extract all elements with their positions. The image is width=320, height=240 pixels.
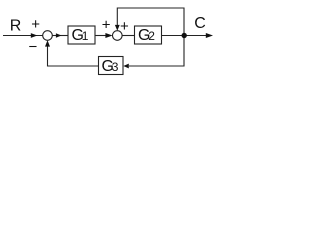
block G1 box (68, 26, 95, 44)
svg-text:G1: G1 (72, 27, 89, 44)
wire R input (3, 35, 43, 37)
svg-text:+: + (102, 16, 111, 33)
svg-text:−: − (29, 39, 38, 56)
block G3 box (99, 57, 124, 75)
wire sum1 to G1 (52, 35, 68, 37)
summing junction sum1 (43, 31, 53, 41)
arrowhead output C (206, 33, 213, 38)
arrowhead up into sum1 bottom (45, 40, 50, 46)
arrowhead sum1 to G1 (56, 33, 62, 38)
wire G1 to sum2 (95, 35, 107, 37)
wire bottom feedback left (48, 46, 99, 67)
wire sum2 to G2 (122, 35, 134, 37)
svg-text:R: R (10, 18, 22, 35)
arrowhead down into sum2 top (115, 25, 120, 31)
svg-text:G3: G3 (102, 58, 119, 75)
summing junction sum2 (113, 31, 123, 41)
svg-text:G2: G2 (138, 27, 155, 44)
wire top feedback (117, 8, 184, 36)
block G2 box (135, 26, 162, 44)
svg-text:+: + (120, 18, 129, 35)
svg-text:C: C (194, 15, 206, 32)
junction dot (182, 33, 187, 38)
svg-text:+: + (31, 16, 40, 33)
wire G2 output to C (162, 35, 209, 37)
arrowhead into sum2 (105, 33, 112, 38)
wire bottom feedback right (129, 36, 184, 67)
arrowhead into sum1 (31, 33, 38, 38)
arrowhead into G3 right (123, 64, 129, 69)
